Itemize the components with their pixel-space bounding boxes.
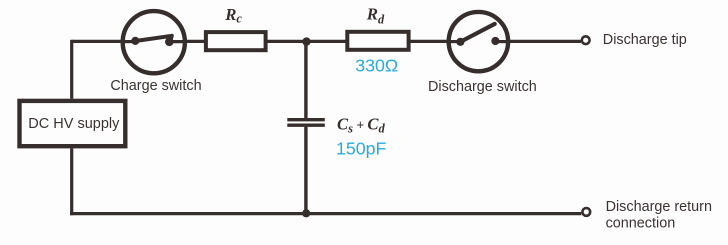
svg-text:Discharge tip: Discharge tip bbox=[603, 32, 687, 48]
wire: stub inside discharge switch left bbox=[448, 40, 461, 43]
DC HV supply box bbox=[20, 101, 126, 146]
capacitor Cs+Cd bottom plate bbox=[287, 123, 325, 126]
discharge switch right contact dot bbox=[491, 37, 499, 45]
svg-text:Rd: Rd bbox=[366, 5, 385, 27]
svg-text:150pF: 150pF bbox=[336, 138, 387, 158]
discharge switch left contact dot bbox=[456, 38, 464, 46]
svg-text:DC HV supply: DC HV supply bbox=[28, 116, 120, 132]
wire: resistor Rd to discharge switch bbox=[409, 40, 449, 43]
wire: stub inside charge switch left bbox=[121, 40, 136, 43]
svg-text:Cs + Cd: Cs + Cd bbox=[337, 114, 385, 135]
wire: capacitor bottom plate to bottom rail bbox=[304, 127, 307, 214]
discharge switch blade (open) bbox=[460, 24, 494, 42]
svg-text:Charge switch: Charge switch bbox=[110, 78, 201, 94]
wire: charge switch to resistor Rc bbox=[186, 40, 206, 43]
charge switch right contact dot bbox=[165, 38, 174, 47]
wire: capacitor vertical from top rail to capacitor top plate bbox=[304, 41, 307, 118]
svg-text:connection: connection bbox=[606, 215, 676, 231]
discharge switch circle S2 bbox=[449, 12, 508, 71]
svg-text:Discharge return: Discharge return bbox=[606, 199, 712, 215]
wire: stub inside discharge switch right bbox=[495, 40, 509, 43]
svg-text:Discharge switch: Discharge switch bbox=[428, 79, 537, 95]
wire: left vertical from DC HV supply box bottom to bottom rail bbox=[70, 148, 73, 215]
wire: left vertical from top rail down to DC HV supply box top bbox=[70, 40, 73, 99]
wire: bottom rail bbox=[70, 212, 581, 215]
wire: stub inside charge switch right bbox=[169, 40, 188, 43]
wire: discharge switch to discharge tip terminal bbox=[508, 40, 581, 43]
svg-text:330Ω: 330Ω bbox=[355, 56, 398, 76]
wire: top rail from left vertical to charge switch bbox=[72, 40, 122, 43]
terminal: discharge tip (open circle) bbox=[582, 36, 590, 44]
capacitor Cs+Cd top plate bbox=[287, 118, 325, 121]
node: bottom junction dot bbox=[302, 209, 310, 217]
resistor Rd body bbox=[347, 32, 408, 50]
svg-text:Rc: Rc bbox=[224, 5, 242, 26]
resistor Rc body bbox=[206, 32, 266, 50]
wire: resistor Rc to resistor Rd through node bbox=[266, 40, 348, 43]
charge switch blade (nearly closed) bbox=[135, 36, 172, 41]
node: top junction dot bbox=[302, 37, 310, 45]
charge switch circle S1 bbox=[123, 11, 185, 73]
charge switch left contact dot bbox=[131, 37, 139, 45]
terminal: discharge return connection (open circle) bbox=[582, 208, 590, 216]
